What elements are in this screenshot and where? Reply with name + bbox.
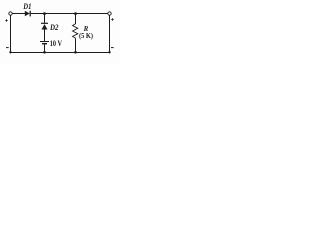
wire: node B down to resistor R: [75, 14, 77, 25]
svg-text:(5 K): (5 K): [79, 31, 93, 40]
diode D2 (cathode bar up): [41, 23, 48, 29]
resistor R zigzag: [73, 24, 78, 38]
minus mark (input): [6, 47, 9, 49]
wire top: node B to output terminal: [76, 13, 108, 15]
plus mark (output): [111, 18, 113, 20]
wire top: D1 to node A: [31, 13, 45, 15]
plus mark (input): [5, 19, 7, 21]
wire left: input terminal down to bottom rail: [10, 15, 12, 52]
wire top: node A to node B: [45, 13, 76, 15]
junction bottom (R branch): [74, 51, 77, 54]
battery V1 10V: [40, 42, 49, 44]
junction bottom (battery branch): [43, 51, 46, 54]
wire top: terminal to diode D1: [12, 13, 25, 15]
svg-text:D1: D1: [22, 2, 31, 11]
svg-text:10 V: 10 V: [50, 39, 62, 48]
wire: node A down to D2 cathode: [44, 14, 46, 24]
wire bottom rail: [11, 52, 110, 54]
minus mark (output): [111, 47, 114, 49]
node A (junction dot, D2 branch): [43, 12, 46, 15]
wire: battery to bottom rail: [44, 45, 46, 53]
wire: resistor to bottom rail: [75, 38, 77, 52]
wire right: output terminal down to bottom rail: [109, 15, 111, 52]
junction bottom-right corner: [108, 51, 110, 53]
junction bottom-left corner: [9, 51, 11, 53]
diode D1: [25, 11, 30, 17]
output terminal (top-right, open circle): [108, 12, 111, 15]
input terminal (top-left, open circle): [9, 12, 12, 15]
svg-text:D2: D2: [49, 23, 58, 32]
wire: D2 anode to battery: [44, 30, 46, 42]
node B (junction dot, R branch): [74, 12, 77, 15]
